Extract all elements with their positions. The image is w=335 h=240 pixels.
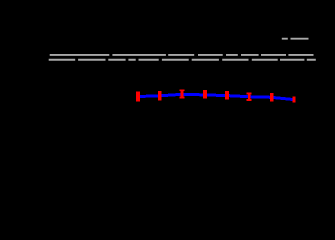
upper gray dashed curve [50, 54, 314, 56]
lower gray dashed curve [49, 59, 316, 61]
red error bar point 7 [270, 93, 274, 101]
red error bar point 6 [247, 93, 252, 101]
red error bar point 5 [225, 91, 229, 99]
red error bar point 1 [136, 91, 140, 101]
legend sample (gray dashed line) [282, 38, 309, 40]
red error bar point 3 [180, 89, 185, 98]
red error bar point 2 [158, 91, 161, 101]
red error bar point 4 [203, 90, 207, 98]
blue data line [138, 94, 294, 99]
red error bar point 8 [292, 97, 295, 103]
